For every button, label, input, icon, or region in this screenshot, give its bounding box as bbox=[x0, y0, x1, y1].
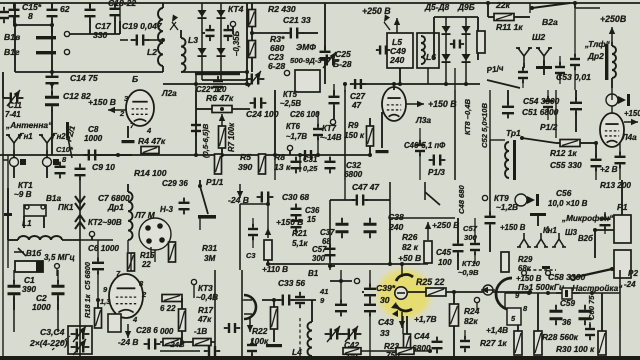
label C12 82 bbox=[63, 91, 91, 101]
svg-text:С51 6800: С51 6800 bbox=[522, 107, 559, 117]
transistor T N bbox=[244, 295, 256, 332]
svg-text:100: 100 bbox=[438, 258, 452, 267]
capacitor extra k1 bbox=[615, 143, 626, 180]
svg-text:С33 56: С33 56 bbox=[278, 278, 305, 288]
svg-text:1,3: 1,3 bbox=[100, 297, 111, 306]
wire spine x275b bbox=[274, 155, 276, 180]
svg-text:R12 1к: R12 1к bbox=[550, 148, 577, 158]
switch lever P14 bbox=[487, 80, 520, 88]
tube cathode gnd bbox=[122, 126, 135, 143]
svg-text:С47 47: С47 47 bbox=[352, 182, 379, 192]
resistor R15 bbox=[128, 251, 155, 271]
label -1B bbox=[194, 327, 207, 336]
label C1 390 bbox=[22, 275, 36, 294]
capacitor C1 bbox=[8, 280, 21, 301]
svg-text:15: 15 bbox=[307, 215, 316, 224]
switch B1a box bbox=[24, 205, 46, 228]
svg-text:С21 33: С21 33 bbox=[283, 15, 311, 25]
wire p x620 dn bbox=[619, 330, 621, 356]
wire left edge bbox=[3, 72, 5, 98]
box pin5 P bbox=[507, 308, 521, 325]
svg-text:+150: +150 bbox=[624, 109, 640, 118]
capacitor f2 bbox=[191, 120, 201, 136]
label L2a bbox=[161, 89, 177, 98]
svg-text:82к: 82к bbox=[464, 316, 478, 326]
wire relay wires bbox=[593, 180, 622, 258]
svg-text:36: 36 bbox=[562, 318, 572, 327]
capacitor inter-diode bbox=[202, 25, 215, 41]
svg-text:R5: R5 bbox=[240, 152, 251, 162]
wire anode arrow bbox=[406, 101, 424, 107]
label R1/4 bbox=[486, 64, 504, 75]
resistor R17 bbox=[179, 306, 214, 331]
resistor R12 bbox=[556, 140, 598, 147]
wire x575 tail bbox=[570, 8, 580, 90]
jack forks L bbox=[517, 233, 566, 247]
svg-text:С45: С45 bbox=[436, 248, 451, 257]
jack fork 2 bbox=[536, 48, 552, 63]
label C3C4 bbox=[29, 327, 68, 348]
svg-text:В1а: В1а bbox=[46, 194, 61, 203]
label R24 82k bbox=[464, 306, 480, 326]
capacitor C33 bbox=[262, 295, 316, 306]
svg-text:22: 22 bbox=[141, 260, 151, 269]
wire l x548 bbox=[547, 226, 549, 233]
svg-text:КТ1: КТ1 bbox=[18, 181, 33, 190]
label Kn1 Sh3 bbox=[543, 226, 593, 243]
testpoint KT6 bbox=[287, 145, 292, 155]
label +110V bbox=[262, 265, 288, 274]
label -24V J bbox=[228, 195, 249, 205]
svg-text:6 22: 6 22 bbox=[160, 304, 176, 313]
svg-text:R11 1к: R11 1к bbox=[496, 22, 523, 32]
wire x300up bbox=[298, 153, 302, 172]
svg-text:R4 47к: R4 47к bbox=[138, 136, 166, 146]
label C8 1000 bbox=[84, 125, 103, 143]
resistor R24 bbox=[450, 290, 459, 356]
resistor R11 bbox=[488, 14, 530, 21]
svg-text:Р2: Р2 bbox=[628, 269, 638, 278]
wire x608 mid bbox=[611, 88, 613, 113]
svg-text:8: 8 bbox=[28, 11, 33, 21]
resistor bottom o2 bbox=[361, 348, 432, 355]
svg-text:С3: С3 bbox=[246, 251, 256, 260]
svg-text:С28 6: С28 6 bbox=[136, 326, 158, 335]
svg-text:С12 82: С12 82 bbox=[63, 91, 91, 101]
wire top right node bbox=[573, 1, 577, 8]
label L3a bbox=[415, 115, 431, 125]
resistor R8 bbox=[259, 152, 291, 174]
svg-text:С24 100: С24 100 bbox=[246, 109, 279, 119]
label C52 bbox=[480, 103, 489, 148]
resistor R25 bbox=[408, 288, 532, 296]
switch P1/1 bbox=[198, 180, 216, 219]
capacitor C27 plates bbox=[329, 90, 340, 122]
resistor P3 bbox=[598, 293, 606, 355]
svg-text:R9: R9 bbox=[348, 121, 359, 130]
switch mark bbox=[381, 14, 390, 30]
wire J col bbox=[239, 204, 241, 270]
testpoint KT7 bbox=[320, 119, 342, 142]
wire spine x345b bbox=[344, 180, 346, 200]
wire left drop bbox=[486, 1, 490, 17]
tube L7 lamp bbox=[139, 218, 171, 250]
indicator symbol bbox=[515, 194, 539, 206]
svg-text:С32: С32 bbox=[346, 161, 361, 170]
wire grid bus bbox=[15, 23, 54, 27]
wire c12 col bbox=[50, 82, 54, 92]
svg-text:С29 36: С29 36 bbox=[162, 179, 188, 188]
svg-text:6-28: 6-28 bbox=[268, 61, 285, 71]
svg-text:+250В: +250В bbox=[600, 14, 627, 24]
svg-text:С18-22: С18-22 bbox=[108, 0, 136, 8]
capacitor C59 bbox=[550, 299, 576, 327]
label +250 K bbox=[432, 220, 459, 230]
svg-text:R30 100 к: R30 100 к bbox=[556, 344, 595, 354]
svg-text:L3: L3 bbox=[188, 35, 198, 45]
capacitor C42 grp bbox=[335, 300, 359, 359]
svg-text:С14 75: С14 75 bbox=[70, 73, 98, 83]
svg-text:Ш2: Ш2 bbox=[532, 32, 545, 42]
label C54 3300 bbox=[523, 96, 560, 106]
wire plate arrow H bbox=[624, 109, 640, 125]
label B node bbox=[132, 74, 138, 84]
wire O bottom bbox=[369, 314, 371, 356]
label C17 330 bbox=[93, 21, 112, 40]
wire F verticals bbox=[196, 90, 275, 155]
capacitor C54r bbox=[570, 90, 582, 132]
label C58 3300 bbox=[548, 272, 585, 282]
label R13 200 bbox=[600, 181, 631, 190]
svg-text:+1,7В: +1,7В bbox=[414, 314, 437, 324]
svg-text:33: 33 bbox=[380, 328, 390, 338]
label KT8 bbox=[463, 98, 472, 135]
svg-text:47: 47 bbox=[351, 101, 362, 110]
svg-text:С30 68: С30 68 bbox=[282, 192, 309, 202]
svg-text:+110 В: +110 В bbox=[262, 265, 288, 274]
wire +250 arrow bbox=[394, 18, 400, 33]
label B1e bbox=[308, 269, 319, 278]
switch B2b lever bbox=[571, 267, 614, 280]
svg-text:240: 240 bbox=[389, 55, 405, 65]
switch B1g bbox=[4, 45, 70, 72]
capacitor extra d2 bbox=[518, 67, 528, 88]
capacitor diode cap bbox=[450, 40, 464, 49]
svg-text:КТ10: КТ10 bbox=[462, 259, 481, 268]
wire c1c2 stems bbox=[3, 270, 80, 332]
wire +150 arrow J bbox=[265, 228, 271, 238]
svg-text:~-14В: ~-14В bbox=[320, 133, 342, 142]
label KT6 bbox=[286, 122, 307, 141]
capacitor C10 bbox=[55, 162, 66, 179]
choke Dr2 bbox=[605, 42, 616, 88]
contour L5 C49 box bbox=[387, 33, 413, 68]
svg-text:R15: R15 bbox=[140, 251, 155, 260]
label C14 75 bbox=[70, 73, 98, 83]
svg-text:R13 200: R13 200 bbox=[600, 181, 631, 190]
resistor R23 bbox=[404, 316, 411, 354]
label B1a bbox=[46, 194, 61, 203]
svg-text:(0,5-6,5)В: (0,5-6,5)В bbox=[201, 123, 210, 158]
capacitor C51 bbox=[502, 90, 514, 118]
capacitor C55 bbox=[591, 143, 602, 171]
trimmer C23 bbox=[246, 69, 265, 87]
label +150 L bbox=[500, 223, 526, 232]
svg-text:5,1к: 5,1к bbox=[292, 239, 308, 248]
wire M bottom net bbox=[3, 270, 58, 356]
wire mid junction bbox=[100, 153, 132, 157]
svg-text:L1: L1 bbox=[22, 219, 32, 228]
label C46 bbox=[404, 141, 446, 150]
capacitor C21 bbox=[285, 28, 304, 39]
label R30 100k bbox=[556, 344, 595, 354]
svg-text:+150 В: +150 В bbox=[500, 223, 526, 232]
wire bottom margin bar bbox=[0, 356, 640, 360]
label +50V bbox=[398, 253, 421, 263]
wire J node bbox=[266, 260, 320, 266]
svg-text:Д5-Д8: Д5-Д8 bbox=[424, 2, 450, 12]
svg-text:R27 1к: R27 1к bbox=[480, 338, 507, 348]
svg-text:„Антенна“: „Антенна“ bbox=[5, 120, 53, 130]
wire y266 ext bbox=[320, 263, 330, 265]
svg-text:+150 В: +150 В bbox=[428, 99, 457, 109]
svg-text:В1в: В1в bbox=[4, 32, 20, 42]
label C43 33 bbox=[378, 317, 394, 338]
wire P bus bbox=[505, 291, 620, 295]
testpoint KT10 circ bbox=[474, 297, 479, 310]
svg-text:~0,9В: ~0,9В bbox=[458, 268, 479, 277]
label Nastroika bbox=[567, 284, 623, 293]
choke Dr1 bbox=[128, 184, 133, 240]
wire I left edge bbox=[4, 188, 12, 240]
capacitor left G bbox=[325, 157, 336, 174]
svg-text:390: 390 bbox=[238, 162, 253, 172]
switch P1/2 lever bbox=[520, 136, 556, 143]
label C7 6800 Dr1 bbox=[98, 193, 130, 212]
svg-text:R7 100к: R7 100к bbox=[227, 122, 236, 152]
wire tube arrow M bbox=[125, 324, 131, 338]
filter box bbox=[284, 70, 320, 92]
label 22k bbox=[495, 0, 511, 10]
svg-text:В1: В1 bbox=[308, 269, 319, 278]
label C31 025 bbox=[303, 164, 318, 173]
label D5-D8 bbox=[424, 2, 450, 12]
svg-text:С48 680: С48 680 bbox=[457, 185, 466, 214]
wire d top bus bbox=[530, 3, 600, 13]
svg-text:-24В: -24В bbox=[168, 340, 185, 349]
label C2 1000 bbox=[32, 293, 51, 312]
svg-text:С58 3300: С58 3300 bbox=[548, 272, 585, 282]
resistor R18 body bbox=[95, 298, 102, 328]
testpoint KT3 bbox=[191, 279, 218, 302]
wire x268 up bbox=[240, 202, 270, 228]
jack fork 1 bbox=[516, 48, 532, 63]
resistor R31 bbox=[169, 242, 218, 263]
wire j x200 bbox=[199, 218, 201, 230]
svg-text:Гн1: Гн1 bbox=[19, 132, 33, 141]
label +1,4V bbox=[486, 326, 508, 335]
svg-text:С44: С44 bbox=[414, 331, 430, 341]
wire o x403 links bbox=[402, 316, 404, 334]
resistor N3 bbox=[271, 298, 278, 342]
wire tube l7 stem bbox=[131, 247, 151, 271]
wire cathode bbox=[376, 112, 389, 153]
svg-text:R6 47к: R6 47к bbox=[206, 93, 234, 103]
label -0,35B bbox=[232, 30, 241, 56]
capacitor extra m2 bbox=[224, 323, 240, 333]
label C47 47 bbox=[352, 182, 379, 192]
svg-text:С59: С59 bbox=[560, 299, 575, 308]
label R6 47k bbox=[206, 93, 234, 103]
capacitor edge tl bbox=[0, 7, 9, 23]
wire N cols bbox=[215, 270, 242, 356]
svg-text:+250 В: +250 В bbox=[432, 220, 459, 230]
label Sh2 bbox=[532, 32, 545, 42]
svg-text:R2 430: R2 430 bbox=[268, 4, 296, 14]
svg-text:Н-3: Н-3 bbox=[160, 205, 173, 214]
capacitor bot2 bbox=[295, 292, 305, 308]
capacitor C15 bbox=[9, 3, 20, 26]
svg-text:КТ8 –0,4В: КТ8 –0,4В bbox=[463, 98, 472, 135]
svg-text:000: 000 bbox=[160, 327, 174, 336]
trimmer C25 bbox=[321, 49, 352, 69]
varcap C3C4 box bbox=[68, 324, 92, 355]
svg-text:R17: R17 bbox=[198, 306, 213, 315]
wire under L5 bbox=[350, 68, 480, 89]
capacitor C36 bbox=[291, 204, 320, 233]
resistor bottom N2 bbox=[193, 339, 211, 346]
tube L1a big bbox=[100, 269, 147, 324]
svg-text:~2,5В: ~2,5В bbox=[280, 99, 301, 108]
label R27 1k bbox=[480, 338, 507, 348]
ground N bbox=[266, 344, 282, 347]
label 7MHz bbox=[17, 263, 36, 272]
label L2 bbox=[147, 47, 157, 57]
relay frame K bbox=[390, 182, 455, 218]
dash link bbox=[52, 336, 70, 350]
wire bottom -24 lnk bbox=[160, 340, 220, 356]
transformer Tr1 bbox=[505, 128, 521, 180]
label R12 1k bbox=[550, 148, 577, 158]
capacitor bot3 bbox=[460, 330, 470, 352]
label L4 coil bbox=[292, 347, 302, 357]
capacitor C38 plates bbox=[364, 218, 377, 239]
svg-text:390: 390 bbox=[22, 284, 36, 294]
svg-text:С37: С37 bbox=[320, 228, 335, 237]
tube L3a bbox=[382, 87, 406, 121]
wire diode frame bbox=[434, 17, 478, 60]
label R25 22 bbox=[416, 277, 444, 287]
wire h tr1 box bbox=[490, 140, 505, 180]
svg-text:Л2а: Л2а bbox=[161, 89, 177, 98]
svg-text:С43: С43 bbox=[378, 317, 394, 327]
svg-text:С39*: С39* bbox=[376, 283, 396, 293]
label D9B bbox=[457, 2, 475, 12]
label C19 0,047 bbox=[122, 21, 163, 31]
capacitor inter-diode 2 bbox=[224, 25, 233, 41]
wire left col bbox=[320, 3, 331, 84]
svg-text:82 к: 82 к bbox=[402, 242, 419, 252]
svg-text:КТ5: КТ5 bbox=[283, 90, 298, 99]
wire L col bbox=[485, 180, 496, 252]
capacitor C57 extra bbox=[312, 244, 336, 263]
inductor L6 bbox=[417, 33, 439, 68]
label C5 6800 bbox=[83, 261, 92, 290]
resistor R3 bbox=[249, 41, 256, 73]
svg-text:КТ4: КТ4 bbox=[228, 4, 244, 14]
label C21 33 bbox=[283, 15, 311, 25]
resistor bottom N1 bbox=[163, 339, 181, 346]
svg-text:2: 2 bbox=[119, 109, 125, 118]
wire r6 col bbox=[194, 72, 198, 90]
label R23 750 bbox=[384, 342, 400, 360]
svg-text:Л3а: Л3а bbox=[415, 115, 431, 125]
resistor P1 bbox=[514, 325, 522, 355]
wire top supply bus bbox=[0, 2, 640, 4]
switch B2a bbox=[530, 3, 570, 27]
svg-text:С11: С11 bbox=[8, 101, 22, 110]
socket Gn1 bbox=[6, 132, 33, 167]
wire R2R3 node bbox=[250, 31, 285, 35]
label 41 19 bbox=[319, 287, 328, 305]
capacitor 62 bbox=[47, 3, 58, 33]
svg-text:Д9Б: Д9Б bbox=[457, 2, 475, 12]
label P1/2 bbox=[540, 122, 558, 132]
trimmer C42a bbox=[325, 324, 344, 342]
label KT10 bbox=[458, 259, 481, 277]
contact chevrons bbox=[75, 180, 85, 268]
svg-text:С36: С36 bbox=[305, 206, 320, 215]
svg-text:13 к: 13 к bbox=[274, 162, 291, 172]
wire n mid link bbox=[242, 299, 244, 301]
tube L2a triode bbox=[119, 90, 154, 135]
svg-text:КТ7: КТ7 bbox=[322, 124, 337, 133]
wire -24 arrow bbox=[237, 184, 243, 198]
svg-text:С9 10: С9 10 bbox=[92, 162, 115, 172]
label -24V M bbox=[118, 337, 138, 347]
wire G right col bbox=[454, 90, 456, 180]
label C29 36 bbox=[162, 179, 188, 188]
wire bottom b2 bbox=[163, 76, 250, 92]
wire left edge col bbox=[3, 98, 8, 160]
svg-text:R22: R22 bbox=[252, 326, 268, 336]
wire I mid bbox=[80, 239, 113, 241]
capacitor C18 bbox=[110, 3, 121, 34]
capacitor bot1 bbox=[247, 340, 257, 356]
resistor R7 bbox=[219, 122, 237, 152]
wire l6 drops bbox=[428, 68, 468, 86]
svg-text:С57: С57 bbox=[312, 245, 327, 254]
wire +150 arrow bbox=[108, 107, 130, 113]
wire C21 to filter bbox=[302, 32, 318, 34]
label C18-22 bbox=[108, 0, 136, 8]
wire lower bus bbox=[15, 70, 163, 74]
resistor R4 bbox=[138, 136, 166, 154]
label C30 680 bbox=[282, 192, 309, 202]
socket Gn2 bbox=[39, 132, 66, 167]
svg-text:С56: С56 bbox=[556, 188, 572, 198]
resistor P2 bbox=[534, 293, 542, 355]
svg-text:L2: L2 bbox=[147, 47, 157, 57]
label Mikrofon bbox=[561, 214, 614, 223]
switch B2b dashed bbox=[522, 266, 556, 275]
resistor R16 bbox=[160, 295, 182, 314]
svg-text:41: 41 bbox=[319, 287, 328, 296]
capacitor C60 bbox=[579, 295, 597, 326]
capacitor C53 bbox=[536, 60, 552, 75]
capacitor C29 bbox=[179, 198, 190, 215]
transistor P arc bbox=[496, 278, 528, 313]
